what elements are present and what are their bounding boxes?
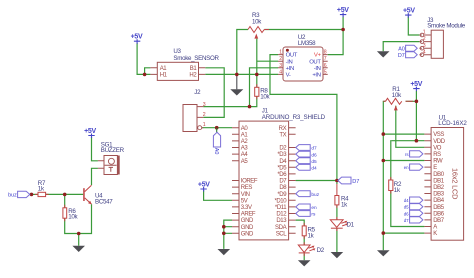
net flag buz at R7 (8, 191, 30, 198)
svg-text:V-: V- (286, 73, 291, 79)
net flag D7 at J3 pin4 (398, 52, 417, 59)
svg-text:d7: d7 (311, 146, 317, 152)
svg-text:+5V: +5V (403, 8, 415, 15)
svg-text:TX: TX (279, 132, 286, 138)
svg-text:DB3: DB3 (433, 192, 445, 198)
wire J2 pin1 to Arduino A0 (202, 127, 232, 129)
junction R3 left/GND (236.8,74.4) (235, 73, 239, 77)
svg-text:*D11: *D11 (275, 205, 287, 211)
pin stubs of R6 (64, 205, 66, 221)
smoke sensor U3 (150, 48, 219, 80)
net flag d5 at LCD DB5 (404, 204, 423, 210)
wire LCD RW (383, 160, 424, 162)
wire LCD VSS (383, 133, 424, 135)
svg-text:LCD-16X2: LCD-16X2 (438, 120, 467, 127)
junction +5V/R3/V+ (343.1,29.5) (341, 28, 345, 32)
junction GND rail LCD (383.3,160.5) (382, 159, 386, 163)
+5V supply at R1 (410, 81, 422, 91)
svg-text:OUT: OUT (309, 59, 321, 65)
wire +5V to J3 pin1 (408, 17, 419, 36)
svg-text:DB0: DB0 (433, 172, 445, 178)
connector J2 (183, 89, 206, 132)
svg-text:A: A (433, 225, 437, 231)
svg-text:A4: A4 (241, 152, 249, 158)
net flag d7 at LCD DB7 (404, 217, 423, 223)
svg-text:4: 4 (423, 49, 426, 55)
svg-text:DB4: DB4 (433, 198, 445, 204)
svg-text:7: 7 (324, 56, 327, 62)
wire R5 to LED D2 (303, 236, 305, 245)
wire R1 left terminal down to VSS RW K GND (383, 101, 385, 250)
wire LCD VDD (391, 140, 424, 142)
junction GND rail LCD (383.3,134.1) (382, 132, 386, 136)
net flag rs at LCD RS (405, 151, 423, 157)
wire J2 pin3 to R8 bottom (203, 96, 256, 106)
svg-text:SCL: SCL (276, 231, 288, 237)
svg-text:1: 1 (423, 30, 426, 36)
svg-text:A2: A2 (241, 139, 249, 145)
net flag d4 at arduino D5 (296, 164, 317, 171)
svg-text:RS: RS (433, 152, 441, 158)
pin stubs of R5 (303, 223, 305, 239)
ground under LED D2 (298, 260, 311, 266)
junction base/R6 (64.7,194.4) (63, 193, 67, 197)
svg-text:GND: GND (241, 225, 254, 231)
svg-text:ARDUINO_R3_SHIELD: ARDUINO_R3_SHIELD (262, 114, 326, 121)
svg-text:RES: RES (241, 185, 253, 191)
svg-text:2: 2 (203, 112, 206, 118)
svg-text:DB5: DB5 (433, 205, 445, 211)
svg-text:J2: J2 (194, 89, 201, 96)
svg-text:2: 2 (423, 36, 426, 42)
wire +5V to Arduino 5V (204, 190, 232, 200)
svg-text:en: en (311, 206, 317, 211)
svg-text:GND: GND (241, 218, 254, 224)
svg-text:DB1: DB1 (433, 178, 445, 184)
junction +5V/R1/VDD (416.4,101.3) (415, 100, 419, 104)
svg-text:A1: A1 (160, 66, 168, 72)
svg-text:B1: B1 (190, 66, 198, 72)
resistor R2 (389, 180, 402, 194)
wire Arduino D13 to R5 (296, 220, 305, 226)
pin stubs of R1 (383, 100, 413, 102)
svg-text:BUZZER: BUZZER (101, 147, 125, 154)
svg-text:1: 1 (279, 50, 282, 56)
junction +5V/U3 A1-H1 (144.6,74.4) (143, 73, 147, 77)
svg-text:3: 3 (203, 102, 206, 108)
svg-text:DB2: DB2 (433, 185, 445, 191)
svg-text:6: 6 (324, 63, 327, 69)
pin stubs of R4 (336, 184, 338, 208)
wire LED D1 to GND (336, 228, 338, 252)
+5V supply at J3 (403, 8, 415, 18)
svg-text:5V: 5V (241, 198, 248, 204)
junction buz flag/R7 (31.5,194.4) (30, 193, 34, 197)
svg-text:A3: A3 (241, 146, 249, 152)
svg-text:D7: D7 (279, 179, 287, 185)
svg-text:8: 8 (324, 50, 327, 56)
svg-text:4: 4 (279, 69, 282, 75)
pin stubs of R3 (264, 29, 269, 31)
svg-text:D7: D7 (352, 179, 359, 185)
ground under LCD K net (377, 250, 390, 256)
svg-text:D7: D7 (398, 53, 405, 59)
net flag en at arduino D11 (296, 204, 317, 211)
wire base to R6 top (64, 194, 66, 207)
svg-text:-IN: -IN (286, 59, 293, 65)
wire VDD to R2 top (390, 141, 393, 180)
svg-text:d5: d5 (311, 159, 317, 165)
svg-text:3.3V: 3.3V (241, 205, 252, 211)
svg-text:VIN: VIN (241, 192, 250, 198)
pin stubs of R7 (35, 193, 49, 195)
svg-text:Smoke Module: Smoke Module (427, 22, 466, 29)
net flag buz at arduino D9 (296, 191, 320, 198)
junction emitter-R6/GND (78.7,233.5) (77, 232, 81, 236)
svg-text:*D3: *D3 (277, 152, 287, 158)
svg-text:D2: D2 (317, 247, 325, 254)
svg-text:*D9: *D9 (277, 192, 287, 198)
wire LM358 OUT to node D7 (270, 55, 337, 181)
svg-text:d6: d6 (404, 211, 409, 216)
wire U3 H2 to LM358 V- (long horizontal net) (205, 73, 278, 75)
svg-text:D8: D8 (279, 185, 287, 191)
net flag d7 at arduino D2 (296, 145, 317, 152)
svg-text:VSS: VSS (433, 132, 444, 138)
pin stubs of R2 (390, 177, 392, 194)
resistor R5 (302, 226, 315, 239)
pin stubs of R8 (256, 84, 258, 99)
svg-text:3: 3 (279, 63, 282, 69)
potentiometer R3 (248, 12, 264, 39)
wire Arduino D7 to node D7 (296, 180, 337, 182)
svg-text:+5V: +5V (84, 128, 96, 135)
wire +5V to U3 A1/H1 (137, 43, 150, 74)
svg-text:E: E (433, 165, 437, 171)
potentiometer R1 (386, 86, 403, 110)
net flag A0 at J3 pin3 (398, 45, 417, 52)
svg-text:buz: buz (311, 192, 319, 198)
svg-text:d6: d6 (311, 152, 317, 158)
op-amp U2 LM358 (278, 34, 328, 81)
+5V supply at R3 (337, 7, 349, 17)
svg-text:5: 5 (324, 69, 327, 75)
svg-text:-IN: -IN (314, 66, 321, 72)
LED D2 (298, 245, 324, 254)
svg-text:rs: rs (311, 212, 316, 218)
wire R3 wiper / LM358 -IN (257, 39, 278, 75)
svg-text:d5: d5 (404, 205, 409, 210)
svg-text:16x2 LCD: 16x2 LCD (450, 168, 459, 199)
svg-text:10k: 10k (68, 214, 78, 221)
connector J3 (419, 17, 465, 59)
svg-text:*D10: *D10 (274, 198, 287, 204)
junction +5V/R1/VDD (416.4,140.7) (415, 139, 419, 143)
lcd U1 (424, 115, 467, 241)
svg-text:3: 3 (423, 43, 426, 49)
wire R6 bottom / U4 emitter to GND (65, 204, 92, 246)
svg-text:BC547: BC547 (95, 198, 113, 205)
junction node D7 (336.9,180.5) (335, 179, 339, 183)
wire buz flag to R7 (30, 193, 38, 195)
LED D1 (330, 220, 354, 229)
ground under J3 pin2 (377, 51, 390, 57)
junction GND rail LCD (383.3,233.1) (382, 231, 386, 235)
net flag D7 at node D7 (338, 177, 359, 185)
svg-text:d4: d4 (404, 198, 409, 203)
net flag d5 at arduino D4 (296, 158, 317, 165)
svg-text:1: 1 (203, 122, 206, 128)
wire Arduino GND pins to ground (224, 220, 232, 249)
svg-text:K: K (433, 231, 437, 237)
svg-text:A0: A0 (398, 46, 405, 52)
wire R4 to LED D1 (336, 205, 338, 220)
net flag d6 at arduino D3 (296, 151, 317, 158)
svg-text:RW: RW (433, 159, 443, 165)
junction A0 net at flag (216.7,127.7) (215, 126, 219, 130)
svg-text:Smoke_SENSOR: Smoke_SENSOR (173, 55, 219, 62)
svg-text:DB6: DB6 (433, 211, 445, 217)
net flag d4 at LCD DB4 (404, 197, 423, 203)
svg-text:H1: H1 (160, 73, 168, 79)
ground under LED D1 (331, 252, 344, 258)
resistor R6 (63, 208, 79, 221)
+5V supply at arduino (198, 181, 210, 191)
net flag en at LCD E (404, 164, 423, 170)
wire R8 top (256, 74, 258, 87)
svg-text:D4: D4 (279, 159, 287, 165)
wire R2 bottom to LCD A (391, 191, 425, 227)
svg-text:RX: RX (279, 126, 287, 132)
svg-text:2: 2 (279, 56, 282, 62)
svg-text:+IN: +IN (286, 66, 294, 72)
junction Arduino GND pins (223.8,226.7) (222, 225, 226, 229)
resistor R7 (38, 180, 46, 197)
svg-text:AREF: AREF (241, 212, 256, 218)
svg-text:LM358: LM358 (298, 40, 316, 47)
svg-text:VDD: VDD (433, 139, 446, 145)
svg-text:A1: A1 (241, 132, 249, 138)
net flag A0 below J2 pin1 (213, 128, 221, 155)
arduino shield J1 (232, 108, 326, 240)
wire +5V to buzzer top pin (92, 137, 98, 161)
svg-text:H2: H2 (189, 73, 197, 79)
resistor R8 (255, 87, 271, 100)
svg-text:10k: 10k (392, 92, 402, 99)
wire LCD K (383, 232, 424, 234)
svg-text:DB7: DB7 (433, 218, 445, 224)
wire LED D2 to GND (303, 253, 305, 260)
net flag d6 at LCD DB6 (404, 210, 423, 216)
pin stubs of LED D2 (303, 242, 305, 256)
wire R3 left terminal to GND (237, 30, 248, 75)
svg-text:10k: 10k (252, 19, 262, 26)
svg-text:d7: d7 (404, 218, 409, 223)
resistor R4 (335, 196, 349, 209)
wire R7 to U4 base (46, 193, 84, 195)
svg-text:A0: A0 (241, 126, 249, 132)
+5V supply at U3 (131, 34, 143, 44)
wire LM358 +IN to J2 pin3 net (250, 68, 279, 107)
ground under arduino (218, 249, 231, 255)
junction R3 wiper/-IN/R8 (256.8,74.4) (255, 73, 259, 77)
svg-text:VO: VO (433, 145, 442, 151)
junction Arduino GND pins (223.8,233.3) (222, 232, 226, 236)
svg-text:*D6: *D6 (277, 172, 287, 178)
wire R3 right terminal to +5V and LM358 V+ (264, 17, 343, 55)
wire node D7 to R4 (336, 181, 338, 185)
svg-text:buz: buz (8, 193, 17, 199)
svg-text:D2: D2 (279, 146, 287, 152)
svg-text:*D5: *D5 (277, 165, 287, 171)
+5V supply at buzzer (84, 128, 96, 138)
svg-text:A5: A5 (241, 159, 249, 165)
svg-text:+IN: +IN (312, 73, 320, 79)
wire buzzer bottom pin to U4 collector (92, 168, 98, 185)
buzzer SG1 (98, 141, 125, 174)
wire J3 pin2 to GND (383, 42, 419, 52)
net flag rs at arduino D12 (296, 211, 316, 218)
wire R1 wiper to LCD VO (396, 106, 425, 148)
svg-text:d4: d4 (311, 166, 317, 172)
svg-text:D12: D12 (276, 212, 287, 218)
wire U3 B1 to J2 pin2 (203, 68, 224, 118)
transistor Q U4 BC547 (83, 185, 113, 205)
ground under R3 left (230, 74, 243, 95)
svg-text:D13: D13 (276, 218, 287, 224)
pin stubs of LED D1 (336, 217, 338, 231)
svg-text:10k: 10k (260, 94, 270, 101)
svg-text:OUT: OUT (286, 53, 298, 59)
svg-text:A0: A0 (213, 148, 219, 155)
svg-text:en: en (404, 165, 409, 170)
ground under U4 emitter (72, 246, 85, 252)
svg-text:GND: GND (241, 231, 254, 237)
svg-text:D1: D1 (347, 221, 355, 228)
svg-text:V+: V+ (314, 53, 322, 59)
wire R1 right to +5V (406, 91, 417, 141)
svg-text:SDA: SDA (275, 225, 287, 231)
junction +IN on J2 pin3 net (249.5,106.6) (248, 105, 252, 109)
svg-text:IOREF: IOREF (241, 179, 258, 185)
